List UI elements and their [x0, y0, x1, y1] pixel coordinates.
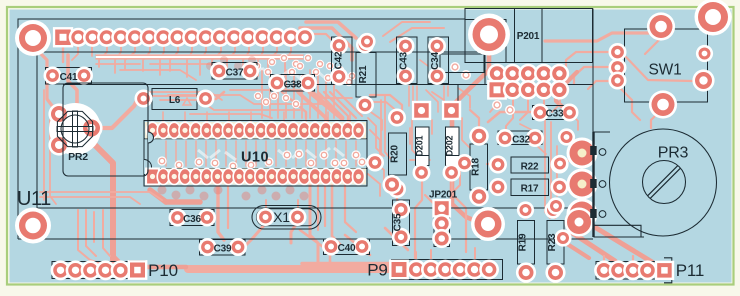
ic socket U10 notch	[144, 160, 152, 175]
wire bundle right of header	[306, 22, 356, 38]
svg-text:C37: C37	[226, 68, 244, 79]
wire P201 to SW1 top pad	[545, 28, 660, 41]
svg-text:SW1: SW1	[649, 62, 682, 79]
mounting pad bottom-left U11 pin	[15, 208, 51, 244]
via cluster U10 middle	[157, 156, 166, 165]
wire header first pads down	[62, 45, 64, 62]
resistor R19 pads	[517, 201, 534, 218]
capacitor C33 outline	[533, 106, 566, 120]
wire C33 left	[488, 112, 534, 122]
jumper JP201 outline	[434, 202, 450, 216]
switch SW1 outline	[625, 29, 708, 102]
resistor R21 pads	[356, 36, 374, 54]
svg-text:C38: C38	[284, 80, 302, 91]
via left of R18	[366, 154, 384, 172]
connector P10 outline	[52, 262, 130, 279]
svg-text:U10: U10	[241, 150, 269, 166]
via cluster left of PR3	[558, 128, 575, 145]
capacitor C37 pads	[210, 62, 228, 80]
capacitor C36 outline	[170, 210, 214, 226]
via large bottom middle	[471, 207, 505, 241]
svg-text:C40: C40	[338, 243, 356, 254]
connector header top row	[53, 27, 73, 47]
via right of D202	[456, 154, 474, 172]
connector P201 main pad	[468, 14, 510, 56]
resistor R22 pads	[489, 156, 507, 174]
svg-text:C42: C42	[334, 51, 345, 69]
capacitor C43 pads	[397, 37, 415, 55]
crystal X1 outline	[252, 206, 321, 230]
diode D201 body	[416, 127, 430, 166]
capacitor C37 outline	[212, 63, 257, 80]
capacitor C35 pads	[392, 200, 410, 218]
capacitor C39 pads	[199, 238, 217, 256]
inductor L6 pads	[135, 90, 153, 108]
wire P9 feeds	[415, 252, 417, 262]
ic socket U10 outline	[144, 121, 367, 187]
svg-text:R23: R23	[547, 233, 558, 251]
svg-text:C39: C39	[214, 244, 232, 255]
svg-text:X1: X1	[273, 209, 290, 225]
wire left column vertical	[43, 90, 45, 200]
via between C42 and C43	[358, 33, 375, 50]
svg-text:P201: P201	[517, 31, 540, 42]
diode D202 pads	[442, 101, 461, 120]
potentiometer PR3 outline	[610, 129, 717, 236]
svg-text:C41: C41	[60, 72, 78, 83]
svg-text:C43: C43	[399, 51, 410, 69]
capacitor C36 pads	[169, 209, 187, 227]
via pair near P201	[450, 62, 460, 72]
white clearance wash U10 strip	[225, 152, 236, 160]
module outline U11 box	[37, 52, 485, 208]
crystal X1 pads	[257, 208, 275, 226]
wire right column verticals	[545, 120, 550, 218]
wire header stubs down-left	[99, 45, 107, 67]
resistor R17 pads	[489, 178, 507, 196]
trimmer PR2 outline	[63, 83, 148, 176]
svg-text:R18: R18	[471, 157, 482, 175]
wire top right diagonals near C43	[383, 22, 430, 36]
capacitor C42 outline	[332, 37, 353, 85]
capacitor C38 outline	[271, 75, 315, 92]
wire parallel bus under header	[96, 54, 303, 59]
capacitor C34 pads	[428, 37, 446, 55]
wire grid to C32 area	[506, 96, 513, 132]
connector P11 pads	[594, 260, 614, 280]
svg-text:R17: R17	[521, 184, 539, 195]
capacitor C42 pads	[330, 37, 348, 55]
resistor R23 outline	[547, 221, 564, 265]
wire PR3 bottom left cluster	[581, 196, 584, 206]
wire P201 pad drop	[452, 53, 489, 221]
svg-text:PR3: PR3	[658, 145, 689, 162]
capacitor C40 outline	[324, 239, 370, 255]
resistor R21 outline	[356, 53, 376, 98]
svg-text:R21: R21	[358, 65, 369, 83]
connector P11 outline	[596, 262, 656, 280]
wire diagonals right of U10 extra	[368, 110, 382, 130]
via above C35	[382, 175, 401, 194]
capacitor C38 pads	[268, 74, 286, 92]
U10 socket pads	[145, 122, 366, 139]
svg-text:U11: U11	[17, 188, 51, 210]
wire verticals below C43 C34	[408, 86, 410, 106]
wire R17 to PR3	[560, 184, 578, 187]
wire upper area horizontals	[150, 64, 222, 72]
connector P201 2x5 grid	[487, 64, 507, 84]
capacitor C35 outline	[393, 200, 410, 246]
svg-text:R19: R19	[518, 233, 529, 251]
svg-text:P10: P10	[148, 261, 178, 280]
wire PR2 bottom to thick vertical	[62, 145, 113, 264]
wire band feeders	[113, 256, 186, 267]
resistor R20 outline	[389, 133, 407, 175]
wire JP201 column down	[415, 178, 422, 258]
outline line y239	[18, 238, 593, 240]
wire PR2 wiper to L6	[92, 99, 143, 128]
ghost pads below U10	[158, 186, 167, 195]
wire diagonal bundle right of C38	[318, 92, 342, 116]
jumper JP201 pads	[432, 199, 451, 218]
wire SW1 to C33	[556, 72, 577, 110]
trimmer PR2 pads	[49, 103, 101, 155]
capacitor C39 outline	[200, 240, 246, 256]
wire P11 feeds	[603, 256, 605, 262]
mounting pad top-left	[15, 20, 51, 56]
wire left bottom verticals	[78, 210, 105, 265]
outline line y208	[37, 207, 593, 209]
wire mid cluster verticals	[261, 70, 263, 118]
switch SW1 pads	[647, 12, 675, 40]
trimmer PR2 key bump	[148, 132, 154, 143]
resistor R23 pads	[544, 201, 561, 218]
wire U10 top stubs	[162, 112, 164, 122]
svg-text:D202: D202	[444, 135, 454, 156]
svg-text:P9: P9	[367, 261, 387, 280]
connector P201 outline	[465, 9, 593, 63]
potentiometer PR3 vent holes	[599, 149, 606, 156]
wire X1 pads down	[246, 223, 266, 245]
capacitor C40 pads	[322, 238, 340, 256]
wire from top-left mounting pad	[36, 49, 59, 114]
inductor L6 polarity mark	[183, 98, 191, 105]
connector P9 pads	[389, 260, 409, 280]
resistor R18 outline	[470, 144, 488, 190]
via cluster above U10	[268, 58, 276, 66]
wire C41 to PR2 region	[68, 55, 77, 111]
wire long horizontals lower left	[40, 192, 162, 200]
wire X1 stubs	[265, 200, 267, 208]
potentiometer PR3 left edge	[594, 131, 611, 133]
board outline top-left	[18, 19, 465, 239]
wire SW1 interior	[645, 30, 661, 54]
wire U10 middle strip verticals	[165, 141, 167, 166]
connector P9 outline	[392, 260, 405, 280]
outline line y84	[63, 84, 593, 86]
svg-text:R22: R22	[521, 162, 539, 173]
wire SW1 left pads	[566, 52, 612, 68]
diode D201 pads	[412, 101, 431, 120]
resistor R18 pads	[469, 126, 489, 146]
potentiometer PR3 screw slot	[648, 166, 681, 199]
trimmer PR2 screw symbol	[57, 111, 92, 146]
inductor L6 outline	[152, 89, 197, 110]
svg-text:C35: C35	[393, 213, 404, 231]
svg-text:JP201: JP201	[429, 190, 458, 201]
svg-text:P11: P11	[676, 261, 704, 280]
svg-text:C36: C36	[183, 214, 201, 225]
capacitor C32 outline	[498, 131, 542, 145]
capacitor C43 outline	[397, 37, 418, 84]
svg-text:L6: L6	[169, 95, 181, 106]
wire left of R20 verticals	[380, 100, 382, 160]
white clearance wash above U10	[262, 68, 276, 80]
via bottom right cluster	[565, 208, 594, 237]
potentiometer PR3 pads	[567, 138, 598, 169]
capacitor C32 pads	[496, 129, 514, 147]
capacitor C41 pads	[44, 67, 62, 85]
capacitor C41 outline	[46, 68, 92, 85]
svg-text:C34: C34	[430, 51, 441, 69]
capacitor C33 pads	[531, 104, 549, 122]
resistor R19 outline	[518, 221, 535, 265]
resistor R20 pads	[388, 109, 406, 127]
svg-text:C33: C33	[546, 109, 564, 120]
wire mid bottom diagonals	[425, 195, 445, 228]
wire R19 R23 drops	[525, 212, 527, 218]
svg-text:C32: C32	[512, 135, 530, 146]
resistor R22 outline	[511, 157, 549, 173]
wire horizontals left of C38	[150, 92, 222, 100]
connector P10 pads	[51, 260, 71, 280]
wire grid area diagonals	[490, 96, 497, 112]
wire L6 right pad	[206, 92, 224, 99]
outline right vertical x593	[592, 9, 594, 133]
svg-text:D201: D201	[414, 135, 424, 156]
resistor R17 outline	[511, 179, 549, 196]
wire C33 to PR3 top	[570, 113, 578, 130]
wire bottom right of P10	[300, 230, 330, 262]
wire R18 links	[487, 163, 492, 165]
wire right of U10 diagonals	[370, 95, 402, 116]
capacitor C34 outline	[428, 37, 449, 84]
small box below P201	[440, 54, 484, 73]
wire R22 to PR3	[560, 154, 578, 164]
wire traces above U10	[160, 100, 300, 110]
svg-text:PR2: PR2	[68, 151, 88, 163]
svg-text:R20: R20	[390, 144, 401, 162]
ghost pads above U10 left	[206, 62, 214, 70]
wire thick diagonals below C38	[310, 92, 342, 118]
wire U10 verticals down	[218, 183, 224, 240]
diode D202 body	[446, 127, 460, 166]
wire bottom band	[188, 265, 392, 273]
